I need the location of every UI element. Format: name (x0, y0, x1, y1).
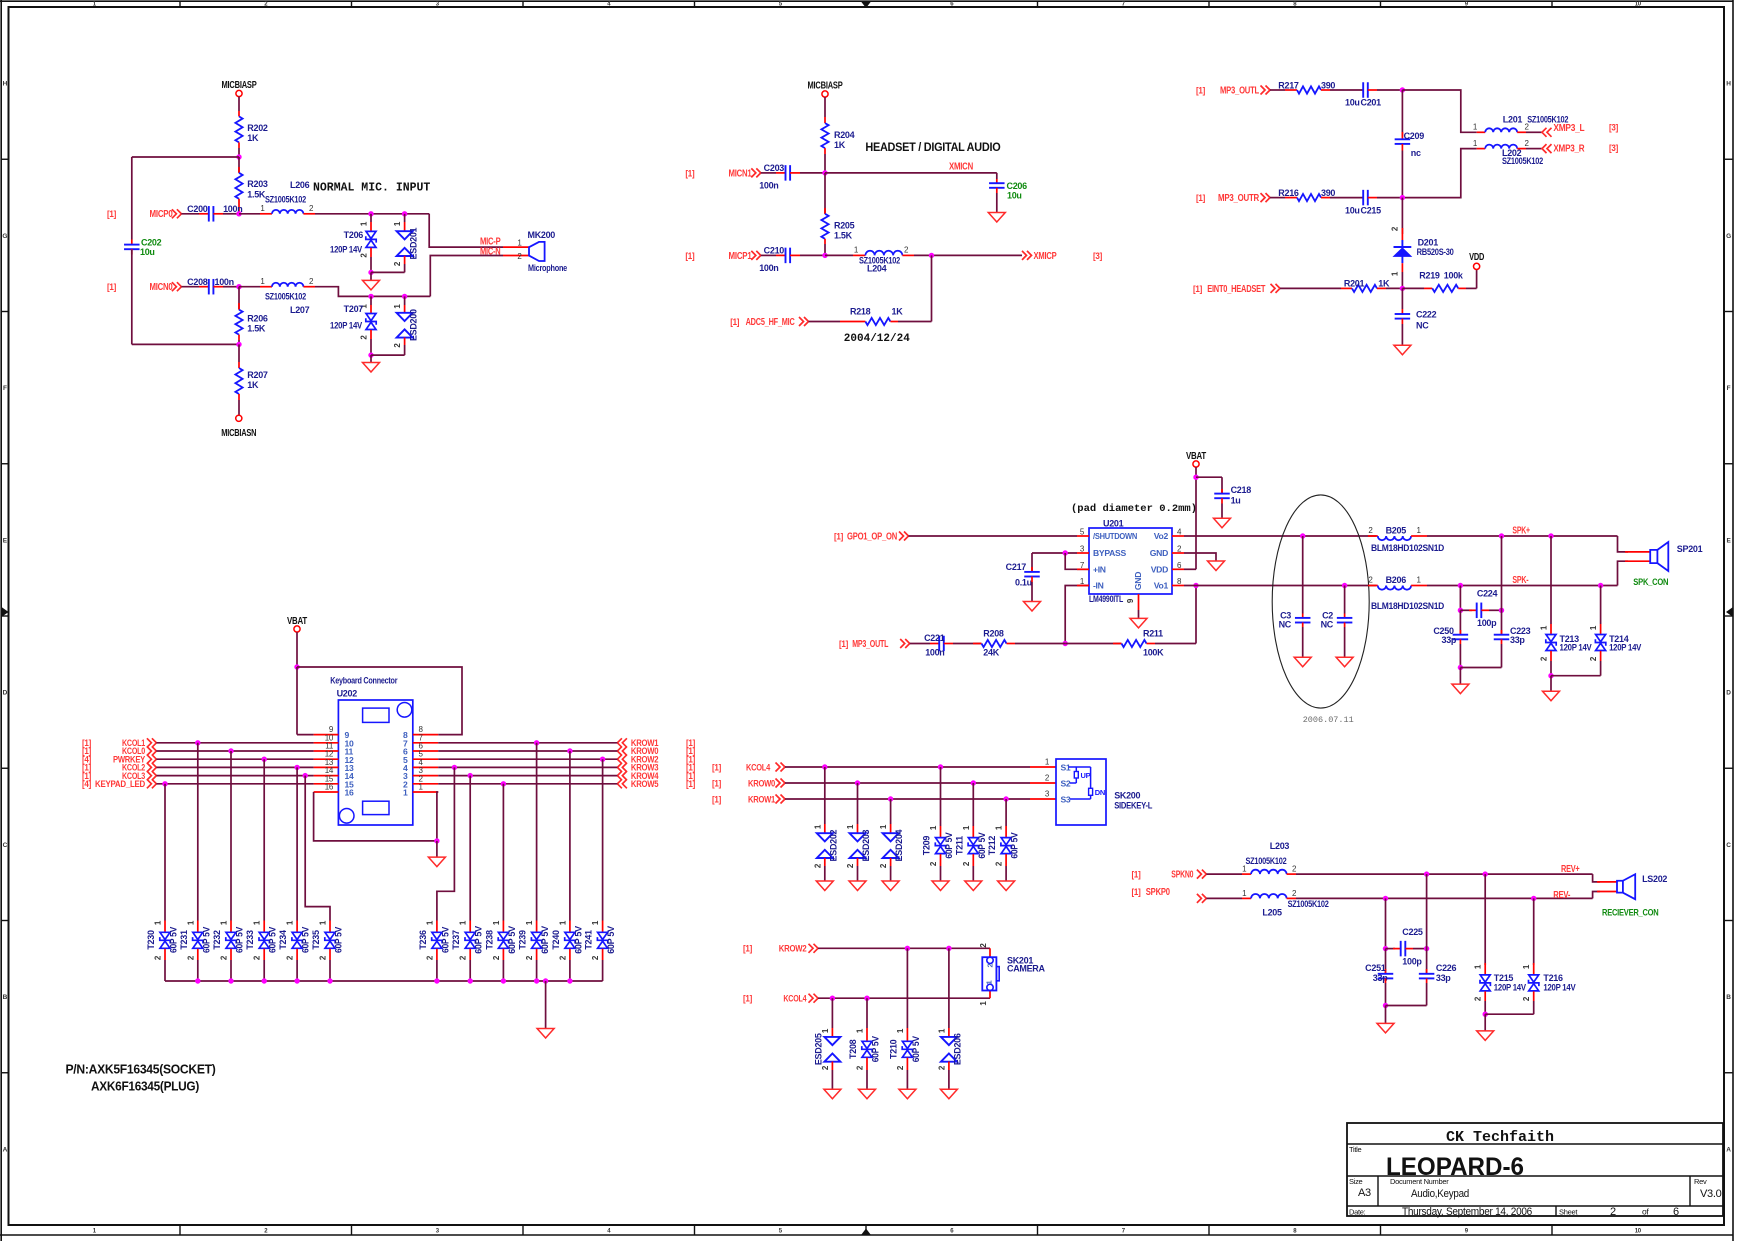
node C250 bottom (1458, 665, 1463, 670)
wire GND pin to ground (1172, 552, 1184, 554)
power VBAT keypad (294, 626, 300, 632)
node C224 right (1499, 608, 1504, 613)
svg-text:KROW0: KROW0 (748, 778, 775, 788)
svg-text:ESD200: ESD200 (409, 309, 419, 341)
svg-text:SIDEKEY-L: SIDEKEY-L (1114, 800, 1153, 810)
node T208 tap (864, 996, 869, 1001)
svg-text:R201: R201 (1344, 279, 1365, 289)
ground C2 (1336, 657, 1353, 667)
port KROW0 (617, 747, 627, 756)
svg-text:MICP1: MICP1 (729, 251, 752, 262)
wire VBAT to pin 8 (297, 667, 462, 735)
connector U202 right pin stubs (413, 734, 438, 736)
assembly ellipse (1272, 495, 1369, 708)
svg-text:1: 1 (985, 980, 994, 984)
wire node to L204 (825, 254, 853, 256)
node T213 bottom (1548, 673, 1553, 678)
svg-text:A3: A3 (1358, 1187, 1371, 1199)
ground T208 (859, 1089, 876, 1099)
wire ESD203 vertical (857, 783, 859, 824)
wire KCOL4 to SK200 pin1 (785, 766, 1030, 768)
svg-text:C202: C202 (141, 238, 162, 248)
svg-text:BLM18HD102SN1D: BLM18HD102SN1D (1371, 601, 1445, 611)
port KROW2 (617, 755, 627, 764)
svg-text:60P 5V: 60P 5V (169, 927, 179, 953)
ground C218 (1214, 518, 1231, 528)
svg-text:R202: R202 (247, 123, 268, 133)
ground T206/ESD201 (370, 272, 372, 280)
svg-text:C225: C225 (1402, 927, 1423, 937)
svg-text:T210: T210 (888, 1039, 898, 1059)
svg-text:NORMAL MIC. INPUT: NORMAL MIC. INPUT (313, 182, 430, 195)
svg-text:G: G (1726, 233, 1731, 240)
node ESD204 tap (888, 796, 893, 801)
svg-text:nc: nc (1411, 148, 1421, 158)
wire L202 to XMP3_R (1517, 148, 1526, 150)
svg-text:T216: T216 (1543, 973, 1563, 983)
svg-text:1K: 1K (892, 307, 904, 317)
node T215 bottom (1483, 1012, 1488, 1017)
svg-text:1.5K: 1.5K (834, 231, 853, 241)
svg-text:2: 2 (985, 963, 994, 967)
svg-text:R219: R219 (1419, 271, 1440, 281)
svg-text:1K: 1K (247, 133, 259, 143)
resistor R201 (1352, 285, 1377, 292)
port KCOL1 (147, 738, 157, 747)
svg-text:VDD: VDD (1469, 252, 1484, 263)
svg-text:D: D (3, 690, 8, 697)
wire MICP0 to C200 (181, 213, 199, 215)
node SPK+ T213 (1548, 533, 1553, 538)
node C251 bottom (1383, 1003, 1388, 1008)
ground C250/C223 (1459, 668, 1461, 685)
node T232 tap (228, 748, 233, 753)
svg-text:ESD202: ESD202 (828, 829, 838, 861)
wire MP3_OUTL to R217 (1270, 89, 1285, 91)
svg-text:C221: C221 (924, 633, 945, 643)
svg-text:DN: DN (1095, 788, 1105, 797)
svg-text:120P 14V: 120P 14V (330, 245, 362, 255)
capacitor C250 (1459, 610, 1461, 634)
inductor L204 (865, 251, 902, 256)
port KCOL2 (147, 763, 157, 772)
svg-text:C206: C206 (1007, 181, 1028, 191)
svg-text:T208: T208 (848, 1039, 858, 1059)
svg-text:10u: 10u (1345, 205, 1360, 215)
svg-text:T237: T237 (451, 930, 461, 950)
svg-text:10u: 10u (1007, 191, 1022, 201)
svg-text:ESD203: ESD203 (861, 829, 871, 861)
svg-text:KROW2: KROW2 (779, 944, 807, 954)
node C225 left (1383, 946, 1388, 951)
node T209 tap (938, 764, 943, 769)
svg-text:C217: C217 (1006, 562, 1027, 572)
svg-text:V3.0: V3.0 (1700, 1188, 1722, 1200)
wire T240 vertical (569, 751, 571, 921)
capacitor C200 (208, 206, 210, 222)
svg-text:EINT0_HEADSET: EINT0_HEADSET (1207, 284, 1266, 295)
resistor R203 (238, 157, 240, 173)
svg-text:[1]: [1] (1132, 870, 1141, 880)
wire KROW3 jog to T236 (452, 765, 457, 770)
switch SK200 UP key glyph (1069, 766, 1091, 768)
svg-text:ADC5_HF_MIC: ADC5_HF_MIC (746, 317, 796, 328)
resistor R217 (1297, 86, 1321, 93)
varistor T214 (1600, 586, 1602, 625)
power MICBIASP (236, 90, 242, 96)
node C201-C209 (1400, 87, 1405, 92)
node KCOL3 tap (303, 773, 308, 778)
svg-text:C203: C203 (764, 163, 785, 173)
wire R211 up to Vo1 (1195, 586, 1197, 644)
node -IN feedback R208 R211 (1063, 641, 1068, 646)
wire KROW1 to SK200 pin3 (785, 798, 1030, 800)
wire REV- to LS202 pin2 (1593, 892, 1600, 899)
svg-text:390: 390 (1321, 80, 1335, 90)
svg-text:60P 5V: 60P 5V (540, 926, 550, 954)
svg-text:[1]: [1] (1196, 85, 1205, 95)
connector U202 box (338, 700, 412, 825)
wire L205 to REV- (1287, 897, 1296, 899)
wire SPK+ to speaker pin1 (1618, 536, 1629, 552)
svg-text:CK Techfaith: CK Techfaith (1446, 1129, 1554, 1146)
svg-text:60P 5V: 60P 5V (268, 927, 278, 953)
svg-text:100n: 100n (759, 263, 778, 273)
svg-text:Rev: Rev (1694, 1177, 1707, 1186)
capacitor C251 (1385, 949, 1387, 974)
svg-text:C218: C218 (1231, 485, 1252, 495)
node MICBIASP-R203 (236, 154, 241, 159)
wire KROW4 (438, 775, 617, 777)
svg-text:10u: 10u (1345, 98, 1360, 108)
wire KCOL1 (156, 742, 313, 744)
svg-text:100n: 100n (759, 181, 778, 191)
svg-text:60P 5V: 60P 5V (507, 926, 517, 954)
node Vo1-R211 (1193, 583, 1198, 588)
svg-text:1.5K: 1.5K (247, 324, 266, 334)
svg-text:[3]: [3] (1093, 251, 1102, 261)
wire VBAT to pin 9 (296, 667, 298, 735)
border center arrows (861, 2, 871, 9)
svg-text:120P 14V: 120P 14V (330, 320, 362, 330)
border column ticks and numbers (179, 1, 181, 7)
svg-text:[1]: [1] (1196, 193, 1205, 203)
node SPK+ C223 (1499, 533, 1504, 538)
wire L203 to REV+ (1287, 873, 1296, 875)
ground T213/T214 (1550, 676, 1552, 692)
wire KROW5 (438, 783, 617, 785)
port KROW3 (617, 763, 627, 772)
svg-text:60P 5V: 60P 5V (201, 927, 211, 953)
wire KROW3 (438, 766, 617, 768)
svg-text:33p: 33p (1436, 973, 1451, 983)
wire MICP1 to C210 (761, 254, 776, 256)
svg-text:A: A (1726, 1146, 1731, 1153)
svg-text:NC: NC (1279, 620, 1292, 630)
node MICN0-R206-L207 (236, 284, 241, 289)
wire left rail to R206/R207 node (132, 343, 239, 345)
node T211 tap (971, 780, 976, 785)
svg-text:MICP0: MICP0 (150, 209, 173, 220)
node REV- C225 tap (1383, 896, 1388, 901)
port KROW1 (617, 738, 627, 747)
svg-text:R203: R203 (247, 179, 268, 189)
svg-text:S2: S2 (1061, 778, 1071, 788)
node MICN1-R204-XMICN (822, 170, 827, 175)
svg-text:MIC-N: MIC-N (480, 246, 501, 257)
svg-text:Date:: Date: (1349, 1208, 1366, 1217)
svg-text:1K: 1K (834, 140, 846, 150)
node T207-ESD200 bottom (368, 352, 373, 357)
svg-text:D: D (1726, 690, 1731, 697)
svg-text:XMP3_L: XMP3_L (1553, 123, 1584, 134)
svg-text:HEADSET / DIGITAL AUDIO: HEADSET / DIGITAL AUDIO (865, 140, 1000, 154)
node REV+ T215 tap (1483, 871, 1488, 876)
svg-text:100n: 100n (215, 277, 234, 287)
node T207 top (368, 294, 373, 299)
svg-text:C209: C209 (1404, 131, 1425, 141)
wire KROW2 to SK201 pin2 (818, 947, 990, 949)
varistor T213 (1550, 536, 1552, 624)
wire SPKN0 to L203 (1206, 873, 1242, 875)
svg-text:C210: C210 (764, 246, 785, 256)
svg-text:60P 5V: 60P 5V (334, 927, 344, 953)
ground ESD202 (816, 881, 833, 891)
svg-text:F: F (1727, 385, 1731, 392)
svg-text:60P 5V: 60P 5V (1010, 832, 1020, 858)
svg-text:[1]: [1] (686, 779, 695, 789)
svg-text:[1]: [1] (107, 209, 116, 219)
left rail wire upper (131, 157, 133, 240)
svg-text:C224: C224 (1477, 589, 1498, 599)
svg-text:NC: NC (1321, 620, 1334, 630)
node C2 top (1342, 583, 1347, 588)
capacitor C210 (785, 248, 787, 264)
ground C222 (1394, 345, 1411, 355)
svg-text:60P 5V: 60P 5V (440, 927, 450, 953)
svg-text:G: G (2, 233, 7, 240)
node MICP1-R205-L204 (822, 253, 827, 258)
node C224 left (1458, 608, 1463, 613)
wire KROW2 (438, 758, 617, 760)
left rail wire lower (131, 250, 133, 344)
ground C217 (1024, 602, 1041, 612)
ferrite bead B205 (1368, 535, 1378, 537)
svg-text:[1]: [1] (1193, 284, 1202, 294)
svg-text:UP: UP (1081, 771, 1091, 780)
wire ESD204 vertical (890, 799, 892, 824)
svg-text:100K: 100K (1143, 647, 1164, 657)
svg-text:BLM18HD102SN1D: BLM18HD102SN1D (1371, 543, 1445, 553)
svg-text:T240: T240 (551, 930, 561, 950)
varistor T216 (1533, 898, 1535, 965)
svg-text:D201: D201 (1418, 237, 1439, 247)
wire MICBIASP to R202 (238, 97, 240, 111)
svg-text:60P 5V: 60P 5V (235, 927, 245, 953)
node T210 tap (905, 946, 910, 951)
inductor L203 (1251, 870, 1287, 874)
wire T232 vertical (230, 751, 232, 921)
resistor R208 (982, 640, 1007, 647)
svg-text:10u: 10u (140, 247, 155, 257)
wire node to R211 (1065, 643, 1121, 645)
wire T212 vertical (1005, 799, 1007, 826)
svg-text:390: 390 (1321, 188, 1335, 198)
svg-text:Audio,Keypad: Audio,Keypad (1411, 1188, 1469, 1200)
svg-text:C201: C201 (1361, 98, 1382, 108)
svg-text:2: 2 (1610, 1206, 1616, 1218)
port XMP3_R (1542, 144, 1552, 153)
svg-text:60P 5V: 60P 5V (911, 1036, 921, 1062)
svg-text:VBAT: VBAT (1186, 451, 1207, 462)
svg-text:2004/12/24: 2004/12/24 (844, 333, 910, 345)
wire SPKP0 to L205 (1206, 897, 1242, 899)
svg-text:C215: C215 (1361, 205, 1382, 215)
wire ESD205 vertical (831, 998, 833, 1028)
wire KCOL3 (156, 775, 313, 777)
svg-text:H: H (3, 81, 8, 88)
capacitor C202 (131, 240, 133, 245)
port KROW5 (617, 779, 627, 788)
svg-text:T230: T230 (146, 930, 156, 950)
wire node to D201 (1401, 198, 1403, 234)
wire MIC-P (429, 214, 503, 247)
capacitor C206 (989, 182, 1005, 184)
wire ADC5_HF_MIC to R218 (809, 321, 841, 323)
svg-text:B205: B205 (1386, 526, 1407, 536)
wire T231 vertical (197, 743, 199, 921)
capacitor C201 (1362, 82, 1364, 98)
ground keypad bus (545, 981, 547, 1029)
svg-text:[1]: [1] (107, 282, 116, 292)
title block frame (1347, 1123, 1723, 1216)
svg-text:MICBIASN: MICBIASN (221, 428, 256, 439)
svg-text:SP201: SP201 (1677, 544, 1703, 554)
svg-text:60P 5V: 60P 5V (606, 926, 616, 954)
svg-text:10: 10 (1635, 2, 1642, 8)
ground T207/ESD200 (370, 355, 372, 362)
svg-text:120P 14V: 120P 14V (1609, 643, 1641, 653)
capacitor C225 (1386, 948, 1396, 950)
node C215-D201 (1400, 195, 1405, 200)
wire KCOL0 (156, 750, 313, 752)
wire node to left rail (132, 156, 239, 158)
svg-text:R205: R205 (834, 221, 855, 231)
svg-text:L203: L203 (1270, 841, 1290, 851)
svg-text:2006.07.11: 2006.07.11 (1303, 715, 1354, 725)
wire VBAT down (1195, 467, 1197, 569)
svg-text:SZ1005K102: SZ1005K102 (1288, 899, 1329, 909)
wire Vo1 to B206 (1172, 585, 1184, 587)
wire R202 to node (238, 142, 240, 148)
node T233 tap (262, 757, 267, 762)
wire T210 vertical (906, 948, 908, 1028)
ground T210 (899, 1089, 916, 1099)
wire L206 to T206/ESD201 row (303, 213, 315, 215)
port KROW4 (617, 771, 627, 780)
svg-text:KEYPAD_LED: KEYPAD_LED (95, 779, 146, 789)
wire MICN1 to C203 (761, 172, 776, 174)
svg-text:B: B (1726, 994, 1731, 1001)
node ESD203 tap (855, 780, 860, 785)
wire node to XMICN (825, 172, 997, 174)
wire VBAT down to node (296, 632, 298, 667)
svg-text:T234: T234 (278, 930, 288, 950)
svg-text:[3]: [3] (1609, 123, 1618, 133)
ground ESD203 (849, 881, 866, 891)
svg-text:ESD205: ESD205 (813, 1033, 823, 1065)
speaker SP201 (1650, 550, 1657, 563)
wire node to L207 (239, 286, 260, 288)
svg-text:10: 10 (1635, 1229, 1642, 1235)
capacitor C3 (1302, 536, 1304, 614)
svg-text:33p: 33p (1441, 635, 1456, 645)
ground ESD205 (824, 1089, 841, 1099)
svg-text:[1]: [1] (685, 168, 694, 178)
wire ESD206 vertical (948, 948, 950, 1028)
svg-text:T212: T212 (987, 836, 997, 856)
wire T238 vertical (502, 784, 504, 921)
node T212 tap (1003, 796, 1008, 801)
svg-text:XMICP: XMICP (1034, 251, 1057, 262)
node BYPASS-+IN (1063, 550, 1068, 555)
svg-text:KCOL4: KCOL4 (746, 762, 771, 772)
svg-text:T233: T233 (245, 930, 255, 950)
node R206-R207 (236, 342, 241, 347)
wire REV+ down to C226 (1426, 874, 1428, 974)
svg-text:60P 5V: 60P 5V (573, 926, 583, 954)
node VBAT-C218 (1193, 475, 1198, 480)
resistor R211 (1122, 640, 1147, 647)
ground T212 (998, 881, 1015, 891)
svg-text:T236: T236 (418, 930, 428, 950)
svg-text:P/N:AXK5F16345(SOCKET): P/N:AXK5F16345(SOCKET) (66, 1063, 216, 1077)
capacitor C218 (1214, 493, 1230, 495)
wire L201 to XMP3_L (1517, 131, 1526, 133)
resistor R219 (1432, 285, 1458, 292)
capacitor C223 (1494, 634, 1510, 636)
wire KROW0 to SK200 pin2 (785, 782, 1030, 784)
ground keypad connector (436, 841, 438, 857)
wire MICN0 to C208 (181, 286, 199, 288)
svg-text:C200: C200 (187, 204, 208, 214)
svg-text:T207: T207 (344, 304, 364, 314)
wire T233 vertical (263, 759, 265, 920)
svg-text:LM4990ITL: LM4990ITL (1089, 594, 1124, 604)
svg-text:S3: S3 (1061, 794, 1071, 804)
svg-text:BYPASS: BYPASS (1093, 548, 1126, 558)
svg-text:L207: L207 (290, 305, 310, 315)
svg-text:SPK_CON: SPK_CON (1633, 577, 1668, 588)
power MICBIASP headset (822, 91, 828, 97)
svg-text:MP3_OUTL: MP3_OUTL (852, 639, 888, 650)
svg-text:L206: L206 (290, 180, 310, 190)
capacitor C221 (938, 636, 940, 652)
svg-text:Microphone: Microphone (528, 263, 567, 273)
wire -IN feedback (1065, 586, 1089, 644)
port XMP3_L (1542, 128, 1552, 137)
svg-text:C251: C251 (1365, 963, 1386, 973)
svg-text:+IN: +IN (1093, 565, 1106, 575)
capacitor C209 (1401, 90, 1403, 137)
svg-text:Title: Title (1349, 1145, 1362, 1154)
wire VDD pin to VBAT (1172, 568, 1184, 570)
port KCOL0 (147, 747, 157, 756)
svg-text:(pad diameter 0.2mm): (pad diameter 0.2mm) (1071, 503, 1197, 515)
wire T241 vertical (602, 759, 604, 920)
resistor R204 (821, 123, 828, 148)
svg-text:Thursday, September 14, 2006: Thursday, September 14, 2006 (1402, 1206, 1532, 1218)
